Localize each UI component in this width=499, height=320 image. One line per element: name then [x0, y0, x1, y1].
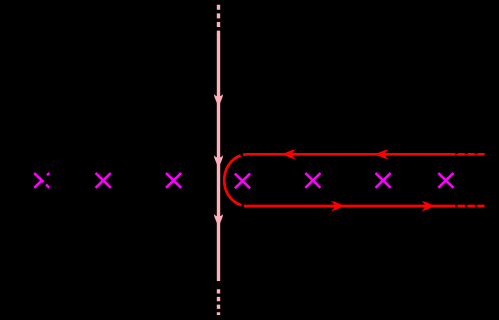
- Bromwich contour: dashed top extension: [217, 5, 220, 35]
- Hankel contour: top arrow 1 (left): [282, 149, 296, 159]
- Hankel contour: top dashed extension: [458, 153, 485, 156]
- Bromwich contour: arrowhead 2 (down): [214, 155, 223, 168]
- Bromwich contour: arrowhead 3 (down): [214, 214, 223, 227]
- Hankel contour: bottom horizontal line: [248, 205, 456, 208]
- pole x6: [376, 173, 391, 188]
- Hankel contour: thin line under top dashes: [455, 153, 485, 155]
- pole x1 (dashed cross): [34, 173, 49, 188]
- pole x2: [96, 173, 111, 188]
- pole x3: [166, 173, 181, 188]
- pole x5: [305, 173, 320, 188]
- Bromwich contour: arrowhead 1 (down): [214, 94, 223, 107]
- Bromwich contour: solid vertical line: [217, 34, 220, 281]
- Hankel contour: bottom dashed extension: [458, 205, 485, 208]
- Hankel contour: thin line under bottom dashes: [455, 205, 485, 207]
- Hankel contour: bottom arrow 2 (right): [422, 201, 436, 211]
- Bromwich contour: dashed bottom extension: [217, 289, 220, 315]
- Hankel contour: top horizontal line: [248, 153, 456, 156]
- pole x7: [438, 173, 453, 188]
- pole x4: [235, 174, 250, 189]
- Hankel contour: top arrow 2 (left): [375, 149, 389, 159]
- Hankel contour: bottom arrow 1 (right): [331, 201, 345, 211]
- Hankel contour: left arc: [224, 154, 247, 206]
